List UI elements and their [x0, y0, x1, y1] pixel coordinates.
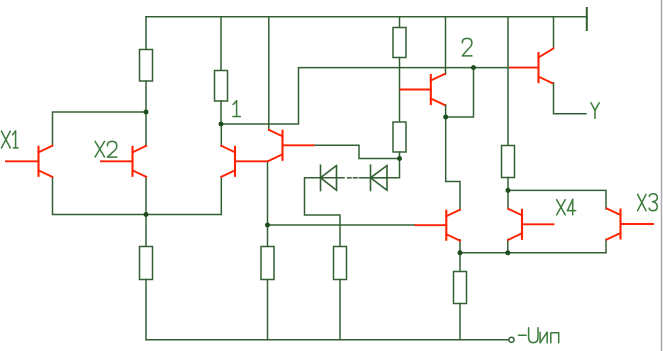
node VT5 emitter — [443, 115, 448, 120]
wire bias node down to diode VD2 anode — [387, 159, 400, 178]
wire VT5 base node to R6 — [399, 90, 401, 123]
node VT7 emitter — [505, 250, 510, 255]
wire bottom rail — [146, 339, 509, 341]
wire node B to R4 — [145, 215, 147, 247]
label -Uип supply — [519, 328, 559, 343]
wire rail to R9 — [507, 17, 509, 146]
label node 2 — [462, 38, 472, 56]
wire node C to R5 — [267, 225, 269, 247]
diode VD2 — [370, 165, 372, 190]
wire R5 to bottom rail — [267, 280, 269, 340]
wire rail to R2 — [220, 17, 222, 71]
wire VT5 emitter down — [445, 105, 447, 117]
wire node 1 to net 2 riser — [221, 68, 510, 124]
wire R3 to VT5 base node — [399, 58, 401, 90]
resistor R8 — [454, 272, 467, 304]
wire R6 to bias node — [399, 152, 401, 159]
frame right edge line — [661, 0, 663, 351]
resistor R4 — [140, 247, 153, 280]
wire node C long run to VT6 base — [268, 224, 416, 226]
wire between diodes with ellipsis dashes — [359, 177, 370, 179]
resistor R7 — [334, 247, 347, 280]
node E — [506, 188, 511, 193]
resistor R2 — [215, 71, 228, 102]
label X4 — [557, 199, 576, 214]
transistor VT2 input X2 — [101, 146, 146, 177]
transistor VT9 output — [510, 49, 553, 84]
power terminal bar top right — [586, 8, 588, 30]
wire node E to VT7 collector — [507, 190, 509, 209]
wire VT3 collector to node 1 — [220, 124, 222, 146]
wire VT6 collector riser to VT5 emitter node — [446, 117, 460, 210]
wire VT2 emitter down — [145, 177, 147, 215]
wire R1 to node A and VT2 collector — [145, 81, 147, 146]
label X2 — [95, 141, 117, 157]
wire rail to VT5 collector — [445, 17, 447, 75]
diode VD1 — [320, 165, 322, 190]
node C — [265, 223, 270, 228]
wire common emitter line right section — [460, 252, 606, 254]
terminal circle -Uип — [509, 337, 514, 342]
node 2 junction — [471, 65, 476, 70]
wire rail to R3 — [399, 17, 401, 28]
transistor VT3 — [221, 146, 267, 177]
transistor VT4 — [269, 130, 314, 161]
wire VT5 emitter node to net 2 — [446, 68, 474, 117]
node 1 junction — [219, 122, 224, 127]
wire R4 to bottom rail — [145, 280, 147, 340]
node D emitters — [458, 250, 463, 255]
transistor VT8 input X3 — [607, 209, 653, 240]
wire R2 to node 1 — [220, 101, 222, 124]
wire VT6 emitter node line — [459, 240, 461, 253]
wire R8 to bottom rail — [459, 304, 461, 340]
wire node E to VT8 collector — [508, 190, 606, 209]
transistor VT5 — [401, 74, 445, 105]
label X3 — [638, 194, 658, 211]
wire VT9 emitter to output Y — [554, 83, 587, 114]
label X1 — [1, 131, 18, 148]
wire VT7 emitter to common line — [507, 240, 509, 253]
label Y output — [591, 103, 599, 118]
resistor R1 — [140, 50, 153, 82]
wire R7 to bottom rail — [339, 280, 341, 340]
wire R9 to node E — [507, 178, 509, 191]
resistor R5 — [261, 247, 274, 280]
wire node D to R8 — [459, 253, 461, 272]
node bias — [397, 156, 402, 161]
transistor VT6 — [416, 210, 461, 241]
wire top power rail — [146, 16, 587, 18]
label node 1 — [233, 101, 240, 117]
wire VT4 emitter to lower node — [267, 161, 269, 225]
wire VT1 collector horizontal — [53, 112, 147, 146]
wire VT8 emitter to common line — [605, 239, 607, 253]
transistor VT7 input X4 — [508, 209, 553, 240]
wire VT3 emitter down — [220, 177, 222, 215]
node A — [144, 110, 149, 115]
transistor VT1 input X1 — [6, 146, 52, 177]
wire VT9 collector to rail — [553, 17, 555, 49]
resistor R3 — [393, 28, 406, 58]
resistor R9 — [502, 146, 515, 178]
wire rail to R1 — [145, 17, 147, 50]
wire rail to VT4 collector — [268, 17, 270, 130]
resistor R6 — [393, 122, 406, 152]
wire VD1 cathode to R7 — [305, 178, 341, 247]
wire VT4 base run to bias node — [314, 145, 400, 158]
node B emitters — [144, 212, 149, 217]
wire VT1 emitter down — [53, 177, 222, 215]
